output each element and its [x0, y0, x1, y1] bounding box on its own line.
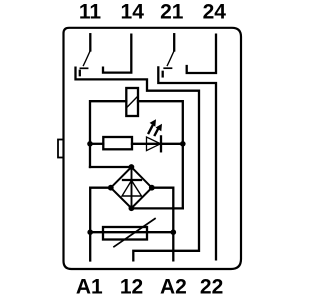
NO fixed contact and terminal lead 24	[187, 35, 216, 73]
contact arm (pole 21)	[167, 51, 174, 66]
junction dot (bridge bottom vertex)	[129, 205, 135, 211]
resistor R1	[103, 137, 132, 149]
svg-text:A1: A1	[76, 276, 103, 299]
wire: bridge left vertex to A1 branch	[90, 188, 111, 261]
LED cathode bar	[160, 136, 162, 151]
junction dot (left rail / resistor rail)	[87, 141, 93, 147]
NC fixed contact tick (circuit 21-22)	[162, 72, 164, 77]
wire: resistor rail left	[90, 143, 103, 145]
bridge internal diode triangle	[122, 181, 142, 197]
svg-text:A2: A2	[160, 276, 187, 299]
bridge internal diode axis	[131, 167, 133, 208]
LED emission arrow 1	[149, 119, 156, 133]
svg-text:24: 24	[203, 1, 227, 24]
bridge rectifier diamond	[111, 167, 152, 208]
svg-text:21: 21	[160, 1, 184, 24]
junction dot (bridge top vertex)	[129, 164, 135, 170]
wire: coil rail left (top rail)	[90, 101, 126, 167]
mounting clip tab on left edge	[58, 140, 64, 158]
LED indicator	[147, 137, 161, 151]
contact arm tip bar (pole 21)	[164, 67, 171, 69]
coil slash mark	[127, 97, 138, 108]
contact arm tip bar (pole 11)	[80, 67, 87, 69]
NO fixed contact and terminal lead 14	[103, 35, 131, 73]
varistor slash	[114, 219, 155, 247]
wire: NC contact 11 to terminal 12	[76, 68, 200, 261]
wire: LED to right vertical	[161, 143, 183, 145]
wire: bridge top vertex to left rail	[90, 166, 131, 168]
wire: bridge right vertex to A2 branch	[152, 188, 174, 261]
bridge internal diode cathode bar	[123, 179, 141, 181]
svg-text:22: 22	[200, 276, 223, 299]
LED emission arrow 2	[155, 124, 162, 135]
wire: coil rail right	[138, 101, 183, 208]
varistor RV1	[103, 227, 147, 240]
junction dot (A1 lead / varistor rail)	[87, 229, 93, 235]
junction dot (right vertical / LED rail)	[180, 141, 186, 147]
terminal lead 21	[173, 34, 175, 50]
svg-text:11: 11	[79, 1, 102, 24]
wire: NC contact 21 to terminal 22	[158, 67, 216, 259]
contact arm (pole 11)	[83, 51, 90, 66]
svg-text:12: 12	[120, 276, 143, 299]
junction dot (bridge left vertex)	[108, 185, 114, 191]
NC fixed contact tick (circuit 11-12)	[79, 71, 81, 75]
svg-text:14: 14	[121, 1, 145, 24]
terminal lead 11	[89, 34, 91, 50]
relay enclosure outline	[64, 28, 242, 269]
wire: resistor to LED	[132, 143, 161, 145]
wire: varistor rail	[90, 231, 173, 233]
junction dot (bridge right vertex)	[149, 185, 155, 191]
junction dot (A2 lead / varistor rail)	[171, 229, 177, 235]
relay coil K1	[126, 88, 138, 116]
wire: bridge bottom vertex to right vertical	[131, 207, 182, 209]
